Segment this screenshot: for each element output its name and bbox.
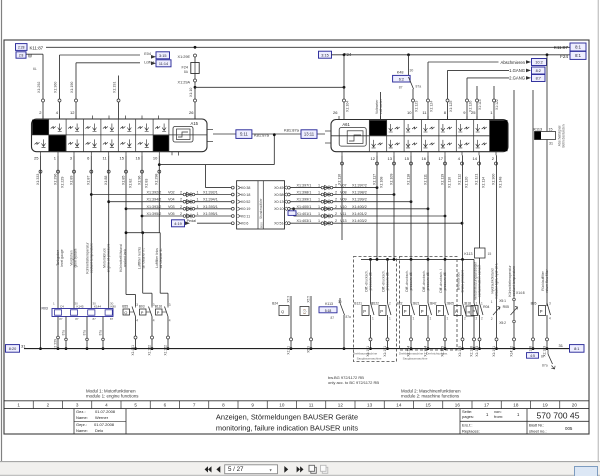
svg-text:X1:397/1: X1:397/1 xyxy=(297,184,312,188)
svg-text:8A: 8A xyxy=(184,70,189,74)
svg-text:only acc. to BC 972/1172 RB: only acc. to BC 972/1172 RB xyxy=(328,380,379,385)
svg-text:15: 15 xyxy=(488,252,492,256)
svg-text:10: 10 xyxy=(153,156,158,161)
svg-text:X1:397/2: X1:397/2 xyxy=(352,184,367,188)
svg-text:K80: K80 xyxy=(111,305,117,309)
svg-text:X1:229: X1:229 xyxy=(60,177,64,188)
svg-text:X1:110: X1:110 xyxy=(447,177,451,188)
svg-text:6: 6 xyxy=(164,402,167,407)
svg-text:level gauge: level gauge xyxy=(60,249,64,266)
svg-text:F24: F24 xyxy=(181,66,188,70)
svg-text:K145: K145 xyxy=(77,305,84,309)
svg-text:2: 2 xyxy=(335,212,337,216)
svg-text:monitoring, failure indication: monitoring, failure indication BAUSER un… xyxy=(216,424,358,433)
svg-text:X1:292: X1:292 xyxy=(37,82,41,93)
svg-text:X1:29A: X1:29A xyxy=(178,81,191,85)
svg-text:X1:118: X1:118 xyxy=(406,174,410,185)
svg-text:87: 87 xyxy=(399,86,403,90)
svg-text:8: 8 xyxy=(222,402,225,407)
svg-text:31: 31 xyxy=(21,344,26,349)
svg-text:B22: B22 xyxy=(397,302,403,306)
svg-text:R04: R04 xyxy=(483,305,489,309)
svg-text:20: 20 xyxy=(572,402,578,407)
svg-text:87a: 87a xyxy=(416,85,422,89)
svg-text:X1:125: X1:125 xyxy=(449,101,453,112)
svg-text:X1:300: X1:300 xyxy=(491,174,495,185)
svg-text:X1:401/1: X1:401/1 xyxy=(297,212,312,216)
svg-text:P: P xyxy=(472,309,475,314)
svg-text:Gepr.:: Gepr.: xyxy=(76,422,87,427)
svg-text:1: 1 xyxy=(318,219,320,223)
svg-text:P: P xyxy=(380,309,383,314)
svg-text:8:20: 8:20 xyxy=(9,347,16,351)
svg-text:X1:395/1: X1:395/1 xyxy=(203,212,218,216)
svg-text:K0:11: K0:11 xyxy=(241,214,250,218)
svg-text:87a: 87a xyxy=(346,315,352,319)
svg-text:R: R xyxy=(455,309,458,314)
svg-text:X1:399/2: X1:399/2 xyxy=(352,198,367,202)
svg-text:2:28: 2:28 xyxy=(18,46,25,50)
svg-text:R05: R05 xyxy=(503,305,509,309)
svg-text:V11: V11 xyxy=(340,212,346,216)
svg-text:X1:119: X1:119 xyxy=(440,174,444,185)
svg-text:12: 12 xyxy=(338,402,344,407)
svg-text:A61: A61 xyxy=(342,122,350,127)
svg-text:9: 9 xyxy=(251,402,254,407)
svg-text:Delo: Delo xyxy=(95,428,104,433)
svg-text:X1:333: X1:333 xyxy=(36,174,40,185)
svg-text:1: 1 xyxy=(318,191,320,195)
svg-text:B55: B55 xyxy=(122,305,128,309)
svg-text:B24: B24 xyxy=(272,302,278,306)
svg-text:11: 11 xyxy=(309,402,314,407)
svg-text:Gez.:: Gez.: xyxy=(76,409,86,414)
svg-text:31: 31 xyxy=(549,142,553,146)
svg-text:10:2: 10:2 xyxy=(535,61,542,65)
svg-text:E04: E04 xyxy=(144,52,151,56)
svg-text:X1:403/1: X1:403/1 xyxy=(297,219,312,223)
svg-text:3:15: 3:15 xyxy=(321,53,328,57)
svg-text:4: 4 xyxy=(153,319,155,323)
svg-text:17: 17 xyxy=(484,402,490,407)
svg-text:12: 12 xyxy=(70,110,75,115)
svg-text:26: 26 xyxy=(189,110,194,115)
svg-text:X1:394/2: X1:394/2 xyxy=(147,198,162,202)
svg-text:glow system: glow system xyxy=(74,248,78,267)
svg-text:coolant tank: coolant tank xyxy=(123,249,127,268)
svg-text:V04: V04 xyxy=(168,198,175,202)
svg-text:13:11: 13:11 xyxy=(304,132,315,137)
svg-text:V05: V05 xyxy=(168,212,175,216)
svg-text:P: P xyxy=(540,309,543,314)
svg-text:pages:: pages: xyxy=(462,414,474,419)
svg-text:2: 2 xyxy=(335,205,337,209)
svg-text:K48: K48 xyxy=(397,71,404,75)
svg-text:X1:114: X1:114 xyxy=(481,177,485,188)
svg-text:X1:395/2: X1:395/2 xyxy=(147,212,162,216)
svg-text:30: 30 xyxy=(410,69,414,73)
svg-text:1: 1 xyxy=(389,317,391,321)
svg-text:5: 5 xyxy=(134,402,137,407)
svg-text:X1:191: X1:191 xyxy=(383,346,387,357)
svg-text:8:7: 8:7 xyxy=(536,77,541,81)
svg-text:6L: 6L xyxy=(33,67,37,71)
svg-text:X0:58: X0:58 xyxy=(274,193,283,197)
svg-text:10: 10 xyxy=(279,402,285,407)
svg-text:X5:1: X5:1 xyxy=(499,299,506,303)
svg-text:2: 2 xyxy=(335,219,337,223)
svg-text:X1:191: X1:191 xyxy=(492,346,496,357)
svg-text:005: 005 xyxy=(565,426,573,431)
svg-text:1: 1 xyxy=(430,317,432,321)
svg-text:87: 87 xyxy=(59,317,63,321)
svg-text:X1:392/2: X1:392/2 xyxy=(147,191,162,195)
svg-text:B122: B122 xyxy=(371,302,379,306)
svg-text:X1:108: X1:108 xyxy=(379,177,383,188)
svg-text:1: 1 xyxy=(318,198,320,202)
svg-text:X14:12: X14:12 xyxy=(509,346,513,357)
svg-text:3:15: 3:15 xyxy=(159,54,166,58)
svg-text:K11:87: K11:87 xyxy=(30,45,44,50)
svg-text:X1:398/2: X1:398/2 xyxy=(352,191,367,195)
svg-text:X1:162: X1:162 xyxy=(163,345,167,356)
svg-text:87: 87 xyxy=(93,317,97,321)
svg-text:2: 2 xyxy=(180,198,182,202)
svg-text:X1:360: X1:360 xyxy=(54,82,58,93)
svg-text:X0:51: X0:51 xyxy=(274,222,283,226)
svg-text:2: 2 xyxy=(180,191,182,195)
svg-text:X1:393/2: X1:393/2 xyxy=(147,205,162,209)
svg-text:Modul 2: Maschinenfunktionen: Modul 2: Maschinenfunktionen xyxy=(401,388,461,393)
svg-text:16: 16 xyxy=(455,402,461,407)
svg-text:1: 1 xyxy=(197,212,199,216)
svg-text:X1:82: X1:82 xyxy=(128,179,132,188)
svg-text:contamination sensor: contamination sensor xyxy=(478,264,482,297)
svg-text:C4: C4 xyxy=(60,305,64,309)
svg-text:1: 1 xyxy=(197,205,199,209)
svg-text:P: P xyxy=(438,309,441,314)
svg-text:Drehbaumaschine: Drehbaumaschine xyxy=(399,352,424,356)
svg-text:B05: B05 xyxy=(448,302,454,306)
svg-text:X1:83: X1:83 xyxy=(144,179,148,188)
svg-text:V08: V08 xyxy=(340,191,347,195)
svg-text:18: 18 xyxy=(513,402,519,407)
svg-text:Abschmieren: Abschmieren xyxy=(501,60,526,65)
svg-text:A15: A15 xyxy=(191,121,199,126)
svg-text:X1:401/2: X1:401/2 xyxy=(352,212,367,216)
svg-text:X1:298: X1:298 xyxy=(155,174,159,185)
svg-text:X1:296: X1:296 xyxy=(53,174,57,185)
svg-text:X1:120: X1:120 xyxy=(464,177,468,188)
svg-text:X1:122: X1:122 xyxy=(495,99,499,110)
svg-text:X1:117: X1:117 xyxy=(372,174,376,185)
svg-text:X14:8: X14:8 xyxy=(516,291,525,295)
svg-text:X1:400/2: X1:400/2 xyxy=(352,205,367,209)
svg-text:pressure dif.: pressure dif. xyxy=(409,272,413,291)
svg-text:K0:18: K0:18 xyxy=(241,193,250,197)
svg-text:B116: B116 xyxy=(155,305,163,309)
svg-text:Modul 1: Motorfunktionen: Modul 1: Motorfunktionen xyxy=(86,388,136,393)
svg-text:X1:394/1: X1:394/1 xyxy=(203,198,218,202)
svg-text:air cleaner lh.: air cleaner lh. xyxy=(159,248,163,268)
svg-text:X1:162: X1:162 xyxy=(147,345,151,356)
svg-text:14: 14 xyxy=(396,402,402,407)
svg-text:X1:29E: X1:29E xyxy=(178,55,191,59)
svg-text:module 2: maschine functions: module 2: maschine functions xyxy=(401,394,460,399)
svg-text:Q: Q xyxy=(124,310,127,315)
svg-text:8:1: 8:1 xyxy=(575,53,581,58)
svg-text:2: 2 xyxy=(335,198,337,202)
svg-text:8:1: 8:1 xyxy=(574,347,579,351)
svg-text:air cleaner rh.: air cleaner rh. xyxy=(142,248,146,269)
svg-text:1: 1 xyxy=(318,205,320,209)
svg-text:Q: Q xyxy=(281,309,284,314)
svg-text:12: 12 xyxy=(371,156,376,161)
svg-text:K81:87a: K81:87a xyxy=(284,128,300,133)
svg-text:X1:121: X1:121 xyxy=(474,174,478,185)
svg-text:K0:52: K0:52 xyxy=(241,200,250,204)
svg-text:25: 25 xyxy=(471,110,476,115)
svg-text:6:2: 6:2 xyxy=(399,77,404,81)
svg-text:Blatt Nr.:: Blatt Nr.: xyxy=(529,423,544,428)
svg-text:2:8: 2:8 xyxy=(19,54,24,58)
svg-text:P: P xyxy=(421,309,424,314)
svg-text:2: 2 xyxy=(464,317,466,321)
svg-text:15: 15 xyxy=(120,156,125,161)
svg-text:V02: V02 xyxy=(168,191,175,195)
svg-text:14: 14 xyxy=(473,156,478,161)
svg-text:2: 2 xyxy=(481,317,483,321)
svg-text:V10: V10 xyxy=(340,205,347,209)
svg-text:X1:190: X1:190 xyxy=(70,82,74,93)
svg-text:B121: B121 xyxy=(354,302,362,306)
svg-text:13: 13 xyxy=(367,402,373,407)
svg-text:X1:400/1: X1:400/1 xyxy=(297,205,312,209)
svg-text:4: 4 xyxy=(136,319,138,323)
svg-text:X1:81: X1:81 xyxy=(286,346,290,355)
svg-text:1: 1 xyxy=(318,184,320,188)
svg-text:4: 4 xyxy=(549,317,551,321)
svg-text:P: P xyxy=(157,310,160,315)
svg-text:V09: V09 xyxy=(340,198,347,202)
svg-text:13: 13 xyxy=(388,156,393,161)
svg-text:K0:38: K0:38 xyxy=(241,186,250,190)
svg-text:sheet no.:: sheet no.: xyxy=(529,428,547,433)
svg-text:11:14: 11:14 xyxy=(159,62,168,66)
svg-text:X1:124: X1:124 xyxy=(430,101,434,112)
svg-text:8:1: 8:1 xyxy=(575,45,581,50)
svg-text:1.GANG: 1.GANG xyxy=(509,68,525,73)
svg-text:2: 2 xyxy=(476,317,478,321)
svg-text:2: 2 xyxy=(180,212,182,216)
svg-text:1: 1 xyxy=(197,198,199,202)
svg-text:26: 26 xyxy=(333,110,338,115)
svg-text:1: 1 xyxy=(491,300,493,304)
svg-text:2: 2 xyxy=(47,402,50,407)
svg-text:X1:112: X1:112 xyxy=(457,174,461,185)
svg-text:Ers.f.:: Ers.f.: xyxy=(462,423,472,428)
svg-text:X1:393/1: X1:393/1 xyxy=(203,205,218,209)
svg-text:B26: B26 xyxy=(531,302,537,306)
svg-text:15: 15 xyxy=(405,156,410,161)
svg-text:X1:113: X1:113 xyxy=(478,99,482,110)
svg-text:Saugbaumaschine: Saugbaumaschine xyxy=(403,357,428,361)
svg-text:4:19: 4:19 xyxy=(174,222,181,226)
svg-text:⌚: ⌚ xyxy=(302,309,307,314)
svg-text:X5:5: X5:5 xyxy=(306,296,310,303)
svg-text:X1:85: X1:85 xyxy=(121,176,125,185)
svg-text:X1:392/1: X1:392/1 xyxy=(203,191,218,195)
svg-text:Drehbaumaschine: Drehbaumaschine xyxy=(353,352,378,356)
svg-text:3: 3 xyxy=(169,303,171,307)
svg-text:X1:123: X1:123 xyxy=(415,101,419,112)
svg-text:87: 87 xyxy=(330,316,334,320)
svg-text:X1:111: X1:111 xyxy=(423,174,427,185)
svg-text:X1:183: X1:183 xyxy=(475,346,479,357)
svg-text:4: 4 xyxy=(169,319,171,323)
svg-text:4:5: 4:5 xyxy=(530,354,535,358)
svg-text:from:: from: xyxy=(494,414,503,419)
svg-text:5:18: 5:18 xyxy=(325,309,332,313)
svg-text:V13: V13 xyxy=(340,219,347,223)
svg-text:16: 16 xyxy=(136,156,141,161)
svg-text:19: 19 xyxy=(543,402,549,407)
svg-text:1: 1 xyxy=(413,317,415,321)
svg-text:P: P xyxy=(141,310,144,315)
svg-text:X1:148: X1:148 xyxy=(498,177,502,188)
svg-text:X1:398/1: X1:398/1 xyxy=(297,191,312,195)
svg-text:P: P xyxy=(404,309,407,314)
svg-text:3: 3 xyxy=(549,302,551,306)
svg-text:17: 17 xyxy=(439,156,444,161)
svg-text:X5:3: X5:3 xyxy=(306,346,310,353)
svg-text:Stundenzähler: Stundenzähler xyxy=(259,198,263,219)
svg-text:F24: F24 xyxy=(560,54,568,59)
svg-text:5 / 27: 5 / 27 xyxy=(228,466,244,473)
svg-text:K113: K113 xyxy=(325,302,333,306)
svg-text:R03: R03 xyxy=(42,306,48,310)
svg-text:BSX: BSX xyxy=(260,222,264,228)
svg-text:X1:403/2: X1:403/2 xyxy=(352,219,367,223)
svg-text:X1:96: X1:96 xyxy=(137,176,141,185)
svg-text:K113: K113 xyxy=(464,252,472,256)
svg-text:2: 2 xyxy=(389,302,391,306)
svg-text:X0:10: X0:10 xyxy=(274,207,283,211)
svg-text:2: 2 xyxy=(335,191,337,195)
svg-text:X1:161: X1:161 xyxy=(131,345,135,356)
svg-text:87: 87 xyxy=(541,355,545,359)
svg-text:brake pressure: brake pressure xyxy=(461,270,465,293)
svg-text:Drehrichtungsw.: Drehrichtungsw. xyxy=(426,352,448,356)
svg-text:Name:: Name: xyxy=(76,428,88,433)
svg-text:module 1: engine functions: module 1: engine functions xyxy=(86,394,139,399)
svg-text:volt meter: volt meter xyxy=(379,98,383,114)
svg-text:K144: K144 xyxy=(94,305,101,309)
svg-text:1: 1 xyxy=(197,191,199,195)
svg-text:P: P xyxy=(363,309,366,314)
svg-text:X1:186: X1:186 xyxy=(469,346,473,357)
svg-text:B03: B03 xyxy=(139,305,145,309)
svg-text:Anzeigen, Störmeldungen BAUSER: Anzeigen, Störmeldungen BAUSER Geräte xyxy=(216,413,358,422)
svg-text:3: 3 xyxy=(76,402,79,407)
svg-text:15: 15 xyxy=(426,402,432,407)
svg-text:indicator light, hydr oil t.: indicator light, hydr oil t. xyxy=(495,263,499,299)
svg-text:pressure dif.: pressure dif. xyxy=(443,272,447,291)
svg-text:X1:109: X1:109 xyxy=(389,174,393,185)
svg-text:1: 1 xyxy=(372,317,374,321)
svg-text:Betriebsstunden: Betriebsstunden xyxy=(562,124,566,147)
svg-text:01.07.2008: 01.07.2008 xyxy=(95,409,116,414)
svg-text:7: 7 xyxy=(193,402,196,407)
svg-text:engine oil pressure: engine oil pressure xyxy=(107,244,111,273)
svg-text:K0:6: K0:6 xyxy=(241,222,248,226)
svg-text:X1:185: X1:185 xyxy=(458,346,462,357)
svg-text:X1:89: X1:89 xyxy=(69,176,73,185)
svg-text:87: 87 xyxy=(110,317,114,321)
svg-text:Name:: Name: xyxy=(76,415,88,420)
svg-text:8:2: 8:2 xyxy=(536,69,541,73)
svg-text:X1:116: X1:116 xyxy=(337,174,341,185)
svg-text:pressure dif.: pressure dif. xyxy=(426,272,430,291)
svg-text:B18: B18 xyxy=(465,302,471,306)
svg-text:01.07.2008: 01.07.2008 xyxy=(94,422,115,427)
svg-text:87a: 87a xyxy=(99,330,103,336)
svg-text:2: 2 xyxy=(491,317,493,321)
svg-text:Pedal: Pedal xyxy=(187,219,197,223)
svg-text:87: 87 xyxy=(75,317,79,321)
svg-text:Replaces:: Replaces: xyxy=(462,428,480,433)
svg-text:X5:3: X5:3 xyxy=(286,296,290,303)
svg-text:coolant temperature: coolant temperature xyxy=(90,243,94,273)
svg-text:1: 1 xyxy=(17,402,20,407)
svg-text:X1:104: X1:104 xyxy=(346,101,350,112)
svg-text:R: R xyxy=(468,310,471,315)
svg-text:Werner: Werner xyxy=(95,415,109,420)
svg-text:X1:87: X1:87 xyxy=(87,176,91,185)
svg-text:K11:87: K11:87 xyxy=(554,45,569,50)
svg-text:1: 1 xyxy=(447,317,449,321)
svg-text:31: 31 xyxy=(559,343,564,348)
svg-text:25: 25 xyxy=(34,156,39,161)
svg-text:V03: V03 xyxy=(168,205,175,209)
svg-text:X1:88: X1:88 xyxy=(104,176,108,185)
svg-text:15: 15 xyxy=(549,127,553,131)
svg-text:X1:191: X1:191 xyxy=(113,82,117,93)
svg-text:87a: 87a xyxy=(62,330,66,336)
svg-text:B42: B42 xyxy=(431,302,437,306)
svg-text:X5:2: X5:2 xyxy=(499,321,506,325)
svg-text:16: 16 xyxy=(422,156,427,161)
svg-text:2: 2 xyxy=(180,205,182,209)
svg-text:K81:87a: K81:87a xyxy=(254,133,270,138)
svg-text:5:11: 5:11 xyxy=(240,132,249,137)
svg-text:570 700 45: 570 700 45 xyxy=(536,411,579,421)
svg-text:Saugbaumaschine: Saugbaumaschine xyxy=(357,357,382,361)
svg-text:X1:399/1: X1:399/1 xyxy=(297,198,312,202)
svg-text:B21: B21 xyxy=(414,302,420,306)
svg-text:X0:13: X0:13 xyxy=(274,200,283,204)
svg-text:pressure dif.: pressure dif. xyxy=(386,272,390,291)
svg-text:pressure dif.: pressure dif. xyxy=(369,272,373,291)
svg-text:10: 10 xyxy=(407,110,412,115)
svg-text:87a: 87a xyxy=(542,364,548,368)
svg-text:K0:19: K0:19 xyxy=(241,207,250,211)
svg-text:1: 1 xyxy=(318,212,320,216)
svg-text:2.GANG: 2.GANG xyxy=(509,76,525,81)
svg-text:return flow filter: return flow filter xyxy=(545,269,549,293)
svg-text:K113: K113 xyxy=(534,127,543,131)
svg-text:X1:10: X1:10 xyxy=(189,88,193,97)
